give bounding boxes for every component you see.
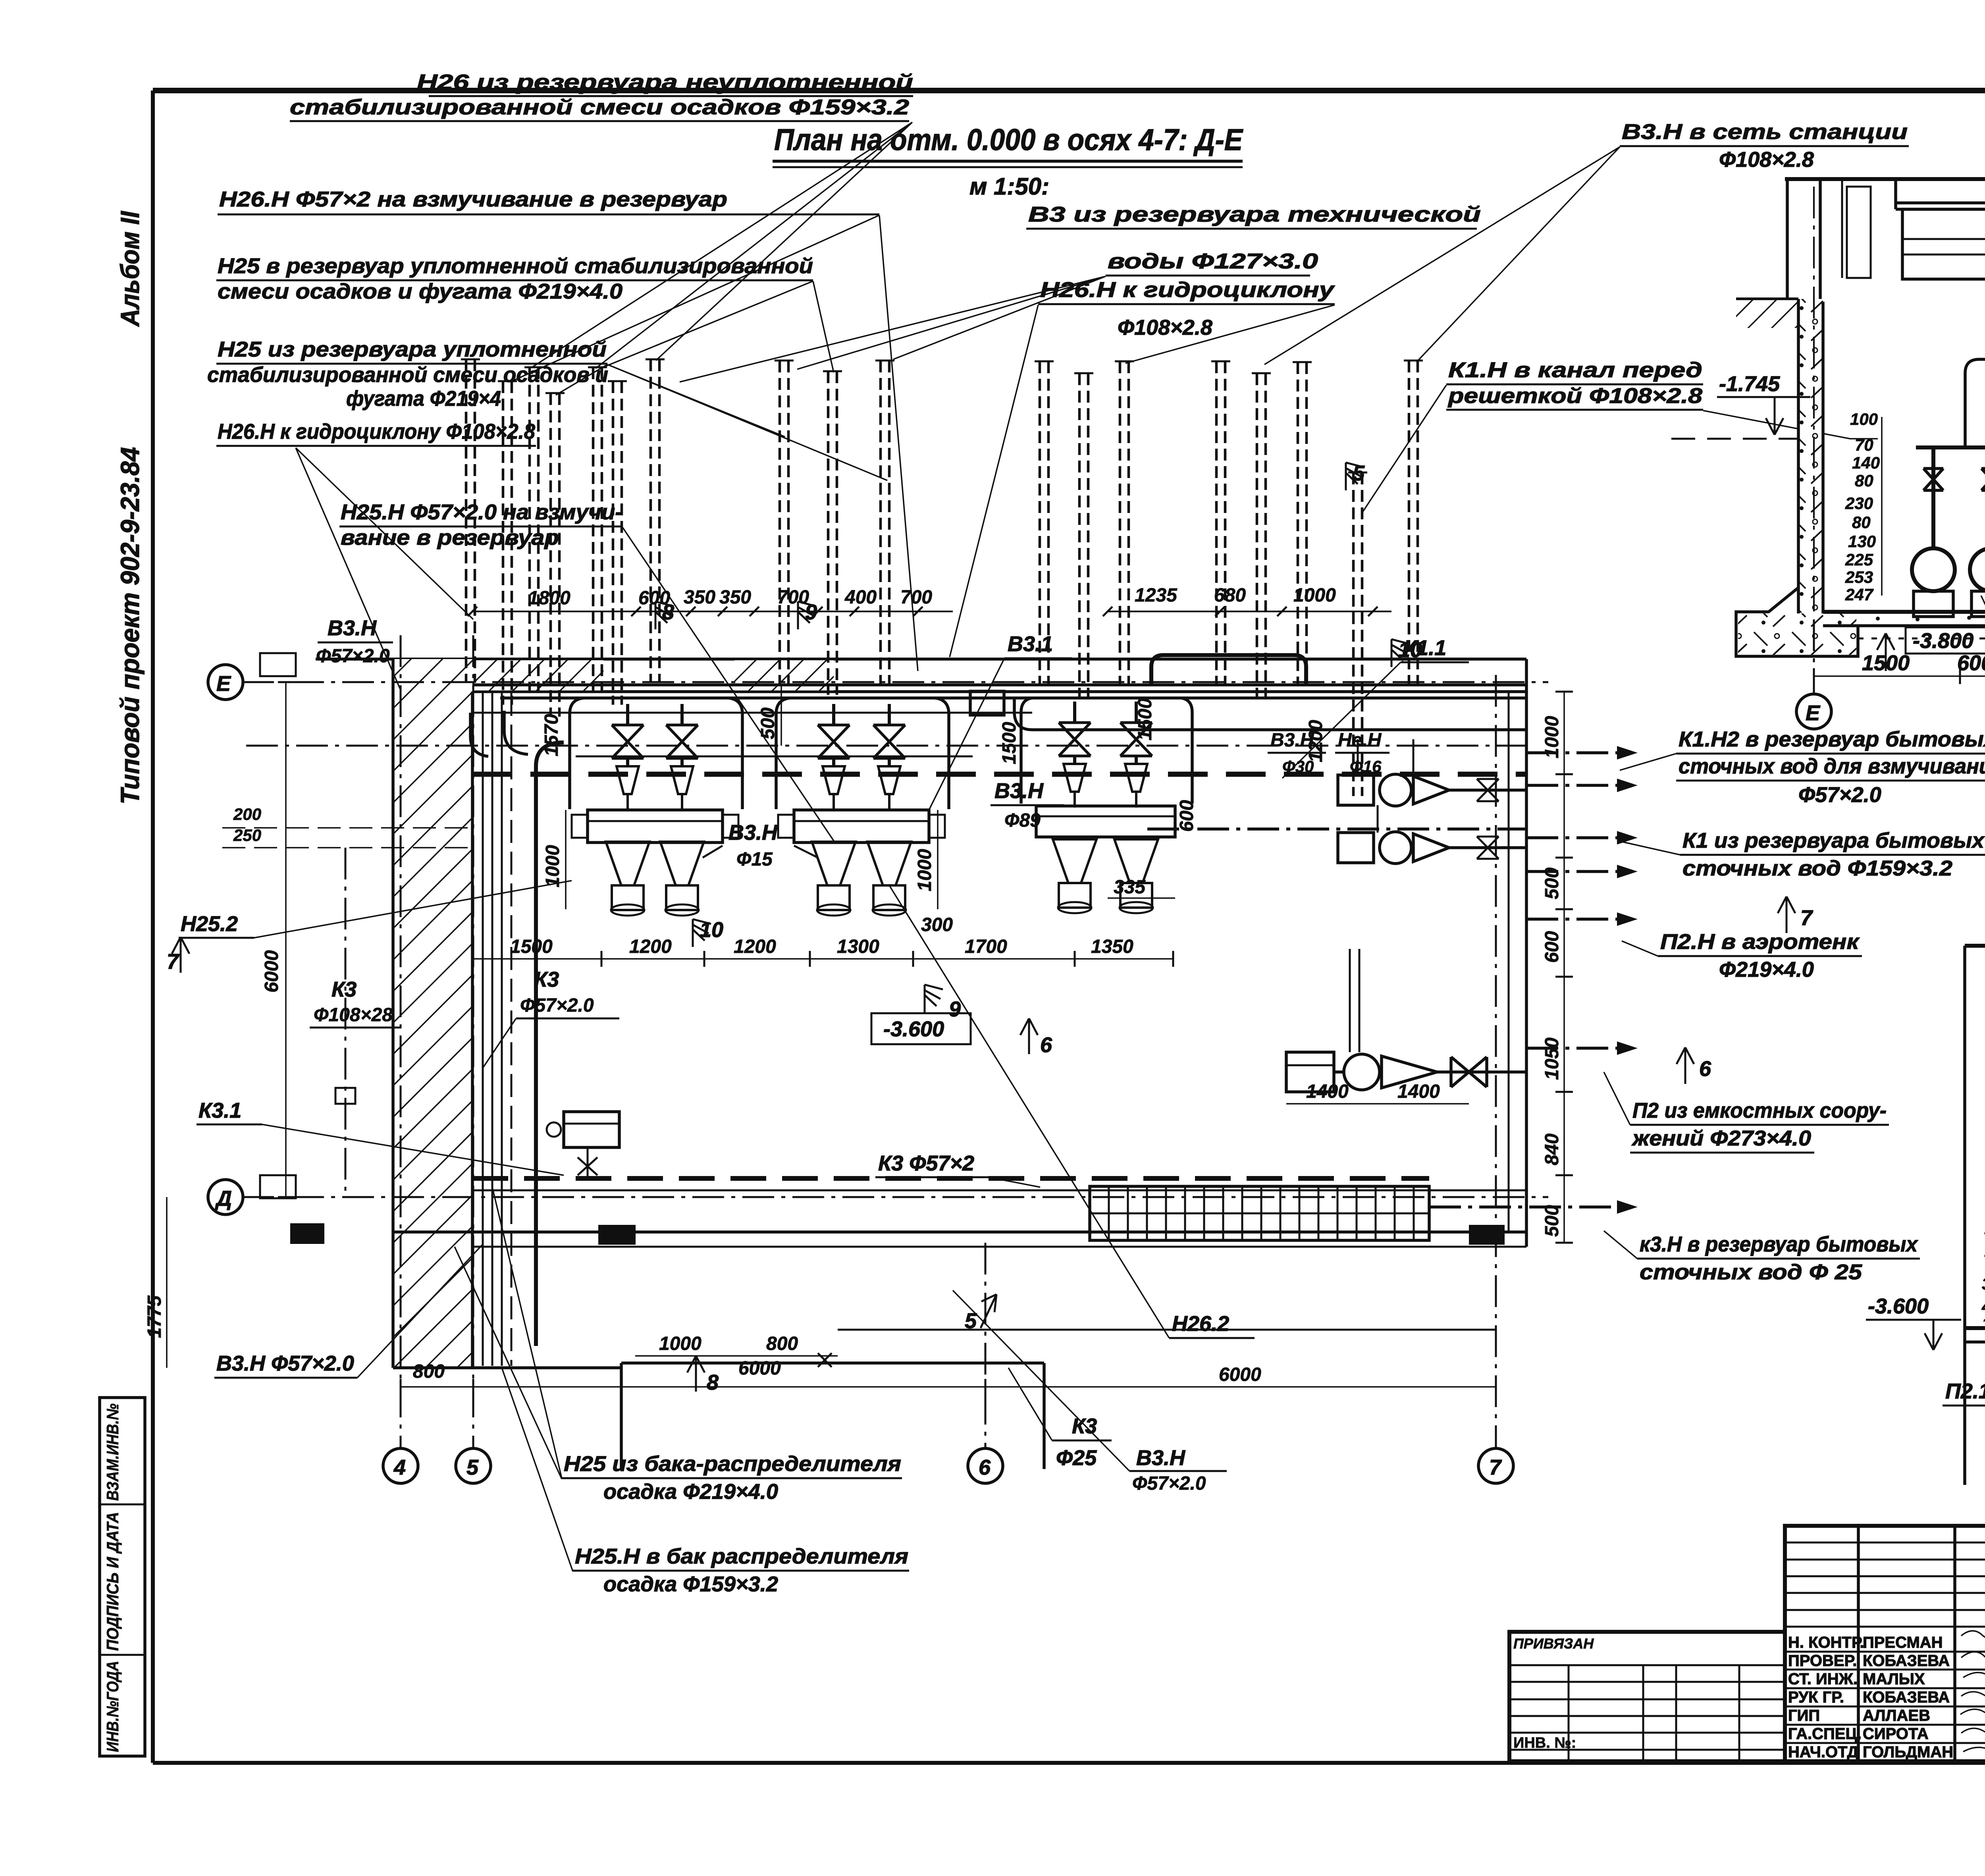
dim 335	[1108, 877, 1175, 898]
svg-text:1400: 1400	[1397, 1081, 1440, 1102]
sec5 axis E circle	[1796, 619, 1831, 729]
svg-text:5: 5	[1353, 461, 1365, 485]
label K3.1	[197, 1099, 564, 1175]
plan south wall	[393, 1232, 1526, 1368]
flag 6 mid	[1020, 1018, 1052, 1057]
svg-text:9: 9	[805, 600, 817, 624]
vert dim 1200 right	[1305, 720, 1326, 762]
svg-text:стабилизированной смеси осадко: стабилизированной смеси осадков и	[207, 363, 608, 387]
label R3	[1622, 930, 1862, 981]
svg-text:230: 230	[1845, 494, 1873, 513]
svg-text:350: 350	[1982, 1274, 1985, 1293]
axis 5 line	[456, 635, 491, 1483]
svg-text:140: 140	[1852, 453, 1880, 472]
svg-text:Ф89: Ф89	[1004, 810, 1041, 831]
right vert dim chain	[1542, 692, 1573, 1243]
axis D line	[208, 1180, 1548, 1215]
top pipe elbows down	[570, 698, 1192, 809]
sec5 left upper columns	[1787, 179, 1871, 302]
leader bottom N25N	[502, 1368, 573, 1571]
svg-text:680: 680	[1214, 585, 1246, 606]
svg-text:Н26.2: Н26.2	[1172, 1312, 1229, 1336]
leader L3	[600, 281, 834, 372]
exit pipe r2	[1526, 779, 1638, 792]
leader L2	[510, 215, 918, 671]
top pipe run 4	[1014, 698, 1526, 730]
manifold dashdot	[246, 745, 1526, 747]
svg-text:1500: 1500	[1135, 698, 1156, 740]
sec6 floor	[1965, 1328, 1985, 1342]
leader L11	[1363, 385, 1878, 512]
sec6 label P2.1	[1943, 1326, 1985, 1406]
sec5 pump 1	[1912, 548, 1955, 617]
pier axis D left	[260, 1175, 296, 1198]
top pipe run 3	[472, 712, 1032, 714]
svg-text:План на отм. 0.000 в осях 4-7:: План на отм. 0.000 в осях 4-7: Д-Е	[774, 123, 1243, 157]
svg-text:решеткой Ф108×2.8: решеткой Ф108×2.8	[1447, 384, 1702, 408]
svg-text:Е: Е	[216, 672, 231, 696]
svg-text:Ф57×2.0: Ф57×2.0	[520, 995, 594, 1016]
vert dim 1000 a	[542, 810, 566, 909]
svg-text:7: 7	[1489, 1456, 1502, 1479]
svg-text:247: 247	[1845, 585, 1874, 604]
stamp person table	[1785, 1526, 1985, 1761]
svg-text:Н26.Н Ф57×2 на взмучивание в: Н26.Н Ф57×2 на взмучивание в резервуар	[219, 187, 727, 211]
bottom long line	[838, 1329, 1496, 1331]
label K3 f25	[1008, 1368, 1112, 1470]
leader L5	[296, 448, 473, 691]
svg-text:1500: 1500	[999, 722, 1020, 764]
duct dim 1000 800	[635, 1333, 838, 1356]
label K3 d108	[310, 978, 401, 1028]
svg-text:К1.1: К1.1	[1403, 636, 1446, 660]
svg-text:-3.800: -3.800	[1913, 629, 1973, 653]
svg-text:Ф16: Ф16	[1350, 757, 1382, 776]
grating stair band	[1090, 1186, 1429, 1240]
svg-text:1700: 1700	[965, 936, 1007, 957]
svg-text:Н26 из резервуара неуплотненн: Н26 из резервуара неуплотненной	[417, 70, 913, 94]
K1 pump unit 2	[1338, 832, 1526, 864]
wall pier 1	[290, 1223, 324, 1244]
svg-text:700: 700	[777, 587, 809, 608]
machine M1	[606, 704, 649, 916]
svg-text:К3.1: К3.1	[198, 1099, 241, 1122]
flag 8 bottom	[687, 1356, 719, 1394]
pipe loop tank top	[1151, 655, 1306, 685]
svg-text:6: 6	[1699, 1057, 1711, 1081]
exit pipe K3N	[1429, 1200, 1638, 1214]
svg-text:Н25 из резервуара уплотненной: Н25 из резервуара уплотненной	[218, 337, 607, 361]
exit pipe r3	[1526, 831, 1638, 844]
sec5 centerline E	[1813, 187, 1815, 611]
svg-text:сточных вод Ф 25: сточных вод Ф 25	[1640, 1260, 1862, 1284]
K1 connection pipes	[1358, 739, 1413, 833]
svg-text:П2.1: П2.1	[1945, 1379, 1985, 1403]
dim row upper	[468, 585, 1391, 616]
svg-text:ГА.СПЕЦ.: ГА.СПЕЦ.	[1788, 1725, 1862, 1743]
top pipe run 2	[500, 696, 1526, 700]
svg-text:осадка Ф159×3.2: осадка Ф159×3.2	[603, 1572, 778, 1596]
svg-text:1000: 1000	[1293, 585, 1336, 606]
svg-text:253: 253	[1845, 568, 1873, 586]
svg-text:СИРОТА: СИРОТА	[1863, 1725, 1929, 1743]
bottom dim line	[401, 1358, 1496, 1395]
dashdot pipe right	[1147, 827, 1526, 831]
riser group D	[1211, 361, 1271, 697]
svg-text:8: 8	[707, 1371, 719, 1394]
bottom label V3N f57 mid	[953, 1290, 1227, 1494]
leader L10	[1264, 147, 1620, 364]
svg-text:350: 350	[719, 587, 751, 608]
svg-text:7: 7	[167, 950, 180, 974]
flag 6 right	[1677, 1047, 1711, 1084]
svg-text:Н25.Н Ф57×2.0 на взмучи-: Н25.Н Ф57×2.0 на взмучи-	[341, 500, 622, 524]
label V3.1	[929, 632, 1072, 810]
machine M2	[660, 704, 704, 916]
duct below plan	[621, 1353, 1044, 1469]
label L8	[1026, 202, 1481, 276]
level -3.600 boxed	[871, 1013, 971, 1044]
wall pier 3	[1469, 1225, 1505, 1245]
svg-text:Не.Н: Не.Н	[1338, 730, 1382, 751]
svg-text:1000: 1000	[659, 1333, 701, 1354]
K3 vertical pipe left	[335, 848, 355, 1197]
svg-text:800: 800	[766, 1333, 798, 1354]
svg-text:м 1:50:: м 1:50:	[969, 173, 1049, 200]
flag 10 right	[1391, 638, 1422, 667]
svg-text:1000: 1000	[542, 845, 563, 887]
machine M5	[1053, 702, 1097, 913]
svg-text:-1.745: -1.745	[1719, 372, 1780, 396]
label L11	[1446, 358, 1703, 410]
svg-text:1500: 1500	[1862, 651, 1910, 675]
svg-text:Альбом II: Альбом II	[115, 210, 145, 327]
svg-text:8: 8	[662, 600, 674, 624]
flag 7 left	[167, 937, 189, 974]
svg-text:воды Ф127×3.0: воды Ф127×3.0	[1108, 249, 1318, 273]
sec5 left foundation	[1736, 588, 1858, 656]
svg-text:П2 из емкостных соору-: П2 из емкостных соору-	[1632, 1099, 1887, 1122]
svg-text:200: 200	[233, 805, 261, 823]
svg-text:500: 500	[1542, 868, 1563, 899]
sec5 cabinet	[1902, 209, 1985, 302]
svg-text:В3.Н: В3.Н	[1136, 1446, 1185, 1470]
label V3N f15 mid	[703, 821, 818, 870]
bottom label V3N f57	[214, 1245, 482, 1378]
bottom dashed pipe K3	[472, 1178, 1526, 1190]
riser group C	[1035, 361, 1134, 697]
small dims 200 250	[222, 805, 472, 848]
svg-text:к3.Н в резервуар бытовых: к3.Н в резервуар бытовых	[1640, 1232, 1918, 1256]
label V3N f30 right	[1268, 730, 1326, 776]
bottom label N25N	[573, 1544, 909, 1596]
svg-text:6000: 6000	[261, 950, 282, 993]
label R4	[1604, 1072, 1889, 1153]
svg-text:ВЗАМ.ИНВ.№: ВЗАМ.ИНВ.№	[103, 1404, 122, 1501]
label L6	[339, 500, 622, 549]
machine M4	[867, 704, 911, 916]
svg-text:ПРЕСМАН: ПРЕСМАН	[1863, 1634, 1943, 1651]
label K3 f57 bottom	[875, 1151, 1040, 1187]
sec5 label K1.1	[1981, 596, 1985, 780]
sec6 ceiling	[1965, 944, 1985, 948]
svg-text:Ф57×2.0: Ф57×2.0	[1798, 783, 1881, 807]
riser group A	[461, 359, 665, 717]
svg-text:вание в резервуар: вание в резервуар	[341, 526, 559, 549]
svg-text:100: 100	[1850, 410, 1878, 428]
plan north wall	[316, 659, 1526, 692]
sec5 ceiling beam	[1896, 179, 1985, 318]
svg-text:осадка Ф219×4.0: осадка Ф219×4.0	[603, 1480, 778, 1504]
K1 pump unit 1	[1338, 774, 1526, 806]
svg-text:НАЧ.ОТД: НАЧ.ОТД	[1788, 1743, 1858, 1761]
svg-text:КОБАЗЕВА: КОБАЗЕВА	[1863, 1652, 1950, 1670]
svg-text:130: 130	[1848, 532, 1876, 551]
svg-text:В3.Н Ф57×2.0: В3.Н Ф57×2.0	[216, 1352, 354, 1375]
svg-text:1000: 1000	[1542, 716, 1563, 758]
svg-text:ГОЛЬДМАН: ГОЛЬДМАН	[1863, 1743, 1953, 1761]
label L4	[207, 337, 608, 411]
label K3 f57 mid	[483, 968, 619, 1068]
svg-text:6: 6	[979, 1456, 991, 1479]
svg-text:стабилизированной смеси осадко: стабилизированной смеси осадков Ф159×3.2	[290, 95, 909, 119]
svg-text:1400: 1400	[1306, 1081, 1349, 1102]
svg-text:415: 415	[1981, 1297, 1985, 1316]
svg-text:6000: 6000	[738, 1358, 781, 1379]
leader L8	[680, 276, 1106, 382]
svg-text:сточных вод для взмучивания: сточных вод для взмучивания	[1679, 754, 1985, 778]
label L5	[216, 420, 536, 446]
svg-text:Ф219×4.0: Ф219×4.0	[1719, 958, 1814, 981]
sec5 pump 2	[1970, 548, 1985, 617]
riser group B	[775, 361, 894, 695]
svg-text:КОБАЗЕВА: КОБАЗЕВА	[1863, 1689, 1950, 1706]
label N26N f15 right	[1335, 730, 1389, 776]
plan west wall hatched	[393, 659, 472, 1368]
label L1 line1	[290, 70, 913, 121]
exit pipe r1	[1526, 746, 1638, 760]
svg-text:1775: 1775	[144, 1295, 165, 1338]
svg-text:ПОДПИСЬ И ДАТА: ПОДПИСЬ И ДАТА	[103, 1512, 122, 1651]
svg-text:-3.600: -3.600	[1868, 1294, 1929, 1318]
svg-text:800: 800	[413, 1361, 445, 1382]
svg-text:Ф108×28: Ф108×28	[314, 1005, 393, 1026]
sec6 level -3.600	[1866, 1294, 1961, 1350]
exit pipe r5	[1526, 912, 1638, 926]
svg-text:300: 300	[921, 914, 953, 935]
svg-text:К3: К3	[331, 978, 357, 1001]
sec6 left wall line	[1963, 946, 1966, 1485]
svg-text:К1 из резервуара бытовых: К1 из резервуара бытовых	[1682, 829, 1985, 852]
left vert dim 1775	[144, 1197, 167, 1368]
svg-text:Н. КОНТР.: Н. КОНТР.	[1788, 1634, 1864, 1651]
svg-text:Ф108×2.8: Ф108×2.8	[1118, 316, 1212, 339]
wall pier 2	[598, 1225, 636, 1245]
svg-text:Н25.2: Н25.2	[181, 912, 238, 936]
dim row lower	[472, 936, 1173, 967]
svg-text:700: 700	[900, 587, 932, 608]
svg-text:Д: Д	[215, 1187, 232, 1211]
sec6 left dims	[1981, 1219, 1985, 1333]
svg-text:500: 500	[757, 708, 779, 739]
riser single E	[1348, 472, 1367, 796]
svg-text:1200: 1200	[629, 936, 672, 957]
label N26.2	[889, 885, 1255, 1338]
sec5 roof line	[1785, 177, 1985, 181]
frame left	[151, 91, 155, 1763]
svg-text:АЛЛАЕВ: АЛЛАЕВ	[1863, 1707, 1930, 1724]
label L2	[218, 187, 879, 214]
svg-text:840: 840	[1542, 1134, 1563, 1165]
svg-text:Ф108×2.8: Ф108×2.8	[1719, 148, 1814, 172]
vert dim 1500	[999, 722, 1020, 764]
svg-text:5: 5	[466, 1456, 479, 1479]
svg-text:-3.600: -3.600	[883, 1017, 944, 1041]
main dashed pipe K1	[472, 772, 1526, 777]
plan east wall	[1509, 659, 1526, 1247]
svg-text:ГИП: ГИП	[1788, 1707, 1820, 1724]
top pipe run 1	[472, 683, 1526, 686]
svg-text:Н26.Н к гидроциклону Ф108×2.8: Н26.Н к гидроциклону Ф108×2.8	[218, 420, 535, 443]
svg-text:К1.Н2 в резервуар бытовых: К1.Н2 в резервуар бытовых	[1679, 727, 1985, 751]
sec5 floor	[1823, 612, 1985, 638]
svg-text:В3 из резервуара технической: В3 из резервуара технической	[1028, 202, 1481, 226]
svg-text:335: 335	[1114, 877, 1146, 898]
svg-text:ИНВ.№ГОДА: ИНВ.№ГОДА	[103, 1661, 122, 1752]
vert dim 500	[757, 685, 781, 746]
frame bottom	[153, 1761, 1985, 1765]
svg-text:Н25 в резервуар уплотненной ст: Н25 в резервуар уплотненной стабилизиров…	[218, 254, 813, 278]
svg-text:80: 80	[1852, 513, 1871, 532]
sec5 level -3.800	[1877, 627, 1985, 671]
svg-text:1050: 1050	[1542, 1037, 1563, 1080]
svg-text:1300: 1300	[837, 936, 879, 957]
svg-text:70: 70	[1855, 436, 1873, 454]
frame top	[153, 88, 1985, 93]
leader L6	[622, 527, 836, 844]
svg-text:1000: 1000	[914, 849, 935, 891]
svg-text:9: 9	[949, 997, 961, 1021]
svg-text:Ф57×2.0: Ф57×2.0	[1132, 1473, 1206, 1494]
leader L9	[950, 305, 1335, 657]
svg-text:1235: 1235	[1135, 585, 1178, 606]
stamp left low table	[1509, 1632, 1785, 1761]
machine M3	[812, 704, 856, 916]
machine M6	[1114, 702, 1158, 913]
axis 4 line	[383, 635, 418, 1483]
svg-text:ПРИВЯЗАН: ПРИВЯЗАН	[1513, 1635, 1594, 1652]
svg-text:250: 250	[233, 826, 261, 844]
svg-text:1200: 1200	[734, 936, 776, 957]
label K1.1 plan	[1282, 636, 1469, 778]
bottom label N25	[562, 1452, 902, 1504]
elbow pipes near west wall	[470, 711, 564, 1346]
sec5 level line -1.745	[1671, 372, 1810, 439]
machine pair 1 body	[572, 810, 738, 843]
svg-text:ПРОВЕР.: ПРОВЕР.	[1788, 1652, 1857, 1670]
svg-text:225: 225	[1845, 550, 1873, 569]
svg-text:1350: 1350	[1091, 936, 1133, 957]
svg-text:Ф25: Ф25	[1056, 1446, 1097, 1470]
leader bottom N25	[455, 1187, 562, 1479]
svg-text:600: 600	[1957, 651, 1985, 675]
vert dim 1000 b	[914, 810, 938, 909]
svg-text:600: 600	[1542, 931, 1563, 963]
pipe box on run	[970, 691, 1004, 715]
svg-text:4: 4	[393, 1456, 406, 1479]
label L3	[216, 254, 813, 303]
svg-text:П2.Н в аэротенк: П2.Н в аэротенк	[1660, 930, 1860, 954]
label V3N f89	[991, 779, 1064, 831]
machine pair 2 body	[778, 810, 945, 843]
svg-text:жений Ф273×4.0: жений Ф273×4.0	[1631, 1126, 1811, 1150]
svg-text:В3.Н: В3.Н	[1270, 730, 1314, 751]
svg-text:В3.Н: В3.Н	[728, 821, 778, 844]
svg-text:сточных вод Ф159×3.2: сточных вод Ф159×3.2	[1682, 856, 1952, 880]
flag 5 bottom	[965, 1294, 996, 1333]
flag 5 top	[1346, 461, 1365, 490]
svg-text:350: 350	[684, 587, 715, 608]
vert dim 1570	[541, 714, 562, 756]
flag 8	[655, 600, 674, 629]
svg-text:фугата Ф219×4: фугата Ф219×4	[346, 387, 501, 411]
svg-text:10: 10	[700, 918, 723, 942]
flag 9 mid	[925, 985, 961, 1021]
svg-text:1800: 1800	[528, 588, 570, 609]
riser single F	[1404, 361, 1423, 684]
sec5 small dims left	[1845, 410, 1882, 604]
vert dim 1300	[1135, 698, 1156, 740]
main title	[773, 123, 1243, 200]
svg-text:К3: К3	[534, 968, 559, 991]
svg-text:500: 500	[1542, 1205, 1563, 1237]
svg-text:Типовой проект 902-9-23.84: Типовой проект 902-9-23.84	[115, 447, 145, 804]
west riser bundle	[483, 693, 511, 1366]
leader L1	[532, 122, 912, 368]
svg-text:СТ. ИНЖ.: СТ. ИНЖ.	[1788, 1670, 1858, 1688]
svg-text:В3.Н в сеть станции: В3.Н в сеть станции	[1622, 120, 1908, 144]
svg-text:К3 Ф57×2: К3 Ф57×2	[878, 1151, 974, 1175]
label R5	[1604, 1231, 1920, 1284]
svg-text:К1.Н в канал перед: К1.Н в канал перед	[1448, 358, 1702, 382]
axis 7 line	[1478, 675, 1513, 1483]
exit pipe P2	[1526, 1041, 1638, 1055]
P2 dim 1400	[1286, 1081, 1469, 1104]
label L10	[1620, 120, 1909, 172]
svg-text:В3.Н: В3.Н	[328, 616, 377, 640]
margin text project number	[115, 447, 145, 804]
svg-text:В3.1: В3.1	[1008, 632, 1053, 656]
svg-text:Ф57×2.0: Ф57×2.0	[316, 646, 390, 667]
machine pair 3 body	[1036, 806, 1175, 837]
sec5 ground hatch left	[1736, 299, 1798, 328]
svg-text:Н26.Н к гидроциклону: Н26.Н к гидроциклону	[1040, 278, 1336, 302]
svg-text:Е: Е	[1806, 701, 1821, 725]
exit pipe r4	[1526, 865, 1638, 878]
label H25.2	[179, 881, 572, 938]
margin text album	[115, 210, 145, 327]
sec5 pump riser pipes	[1916, 359, 1985, 548]
leader L4	[556, 364, 887, 480]
label R2	[1622, 829, 1985, 880]
sec5 dim row	[1814, 651, 1985, 684]
svg-text:РУК ГР.: РУК ГР.	[1788, 1689, 1844, 1706]
flag 10 mid	[693, 918, 723, 947]
svg-text:6000: 6000	[1219, 1364, 1261, 1385]
svg-text:6: 6	[1040, 1033, 1052, 1057]
svg-text:1570: 1570	[541, 714, 562, 756]
vert dim 600 right	[1176, 800, 1197, 832]
